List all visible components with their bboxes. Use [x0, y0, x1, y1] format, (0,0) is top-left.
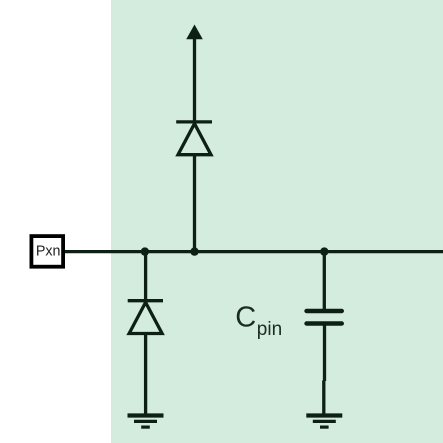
capacitor Cpin: plates — [307, 311, 342, 324]
diode D2 triangle — [129, 302, 162, 333]
wire: junction down to capacitor top plate — [323, 252, 326, 310]
diode D1 triangle — [178, 124, 211, 155]
svg-text:Pxn: Pxn — [36, 244, 61, 260]
wire: capacitor bottom plate down (upper segment) — [323, 326, 326, 382]
junction at VCC-diode branch — [190, 247, 198, 255]
label Cpin — [235, 302, 282, 340]
wire: horizontal net from pin Pxn to right edge — [63, 250, 443, 253]
pin Pxn (pad box) — [31, 236, 63, 267]
svg-text:C: C — [235, 302, 256, 334]
wire: vertical up from junction to VCC diode — [193, 155, 196, 252]
ground symbol (below D2) — [128, 416, 164, 428]
chip internal region (green) — [111, 0, 443, 443]
svg-text:pin: pin — [257, 319, 282, 340]
wire: capacitor lower segment to ground — [322, 380, 325, 415]
junction at Cpin branch — [320, 247, 328, 255]
ground symbol (below Cpin) — [306, 416, 342, 428]
wire: vertical down from junction to GND diode — [144, 252, 147, 301]
junction at GND-diode branch — [141, 247, 149, 255]
wire: VCC diode to arrow shaft — [193, 36, 196, 122]
diode D1 (pin to VCC): cathode bar — [176, 120, 212, 123]
diode D2 (GND to pin): cathode bar — [128, 299, 163, 302]
power arrow (to VCC) — [186, 25, 203, 40]
wire: GND diode anode down to ground — [144, 334, 147, 416]
